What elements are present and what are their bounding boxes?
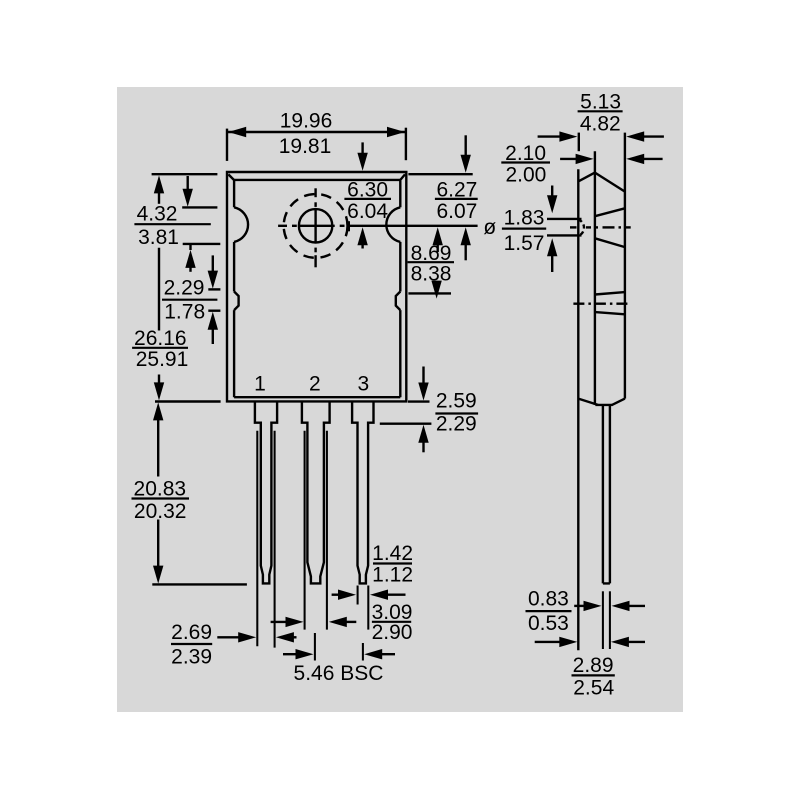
svg-text:19.96: 19.96 xyxy=(280,110,333,133)
svg-text:1.83: 1.83 xyxy=(504,207,545,230)
dimension 2.69/2.39 xyxy=(171,621,297,669)
svg-text:4.32: 4.32 xyxy=(137,203,178,226)
side view middle line xyxy=(594,151,596,405)
svg-text:19.81: 19.81 xyxy=(279,135,332,158)
side view lead xyxy=(603,405,610,584)
side view top peak xyxy=(578,173,625,192)
package bottom extension line left xyxy=(155,400,221,402)
svg-text:2: 2 xyxy=(309,373,321,396)
svg-text:0.53: 0.53 xyxy=(528,612,569,635)
svg-text:3.81: 3.81 xyxy=(138,226,179,249)
svg-text:25.91: 25.91 xyxy=(136,348,189,371)
svg-text:1.78: 1.78 xyxy=(164,300,205,323)
gray drawing panel xyxy=(117,87,683,712)
svg-text:1.12: 1.12 xyxy=(372,563,413,586)
dimension 5.13/4.82 xyxy=(538,91,664,152)
package inner outline right side xyxy=(399,181,401,398)
package inner outline bottom xyxy=(234,396,400,398)
svg-text:2.00: 2.00 xyxy=(505,164,546,187)
svg-text:0.83: 0.83 xyxy=(528,588,569,611)
mounting hole boss dashed circle xyxy=(284,194,348,258)
leg 1 max-width lines / extension lines xyxy=(257,431,274,648)
package front view outer outline xyxy=(227,172,406,401)
extension line lower notch bottom xyxy=(208,310,220,312)
leg 3 center extension line xyxy=(362,643,364,661)
dimension 26.16/25.91 xyxy=(132,175,188,400)
extension line lower notch top xyxy=(208,288,220,290)
leg 2 max-width lines / extension lines xyxy=(305,431,327,630)
svg-text:26.16: 26.16 xyxy=(134,327,187,350)
svg-text:5.13: 5.13 xyxy=(580,91,621,114)
svg-text:2.54: 2.54 xyxy=(573,677,614,700)
left side notch lower (chamfered) xyxy=(234,292,239,311)
dimension 2.59/2.29 lead shoulder xyxy=(380,367,478,453)
svg-text:20.83: 20.83 xyxy=(134,477,187,500)
svg-text:1.42: 1.42 xyxy=(372,542,413,565)
svg-text:1: 1 xyxy=(254,373,266,396)
side view lead extension lines xyxy=(603,591,610,649)
dimension 4.32/3.81 arrow xyxy=(134,176,210,249)
pin number 3 xyxy=(357,373,369,396)
dimension 6.27/6.07 xyxy=(435,135,478,260)
side view hole extension lines xyxy=(547,219,582,236)
side view left edge line with lower extension xyxy=(577,169,579,650)
leg tips extension line xyxy=(152,583,247,585)
hole horizontal centerline xyxy=(278,225,478,227)
svg-text:8.38: 8.38 xyxy=(411,263,452,286)
dimension 0.83/0.53 lead thickness xyxy=(526,588,646,636)
hole vertical centerline xyxy=(314,188,316,267)
svg-text:4.82: 4.82 xyxy=(580,112,621,135)
extension line upper arc top xyxy=(182,206,217,208)
top edge extension line left xyxy=(152,173,218,175)
leg 3 outline xyxy=(352,401,373,583)
svg-text:2.39: 2.39 xyxy=(171,645,212,668)
left side notch arc upper xyxy=(234,207,248,242)
mounting hole solid circle xyxy=(299,209,332,242)
leg 3 tip extension lines xyxy=(358,586,369,630)
dimension 2.29/1.78 arrows xyxy=(162,255,218,344)
dimension 20.83/20.32 xyxy=(132,402,190,583)
side view upper chamfer diagonals xyxy=(595,208,625,247)
package inner outline left side xyxy=(233,181,235,398)
top edge extension line right xyxy=(408,173,472,175)
extension line upper arc bottom xyxy=(183,243,221,245)
svg-text:6.07: 6.07 xyxy=(436,200,477,223)
svg-text:2.59: 2.59 xyxy=(436,389,477,412)
right side notch arc upper xyxy=(386,207,400,242)
right side notch lower (chamfered) xyxy=(396,292,401,311)
package front view inner outline top with corner chamfers xyxy=(228,174,405,181)
arc bottom arrow xyxy=(185,245,195,272)
dimension 2.89/2.54 xyxy=(535,637,645,700)
side view notch diagonals xyxy=(595,292,625,314)
svg-text:ø: ø xyxy=(483,216,496,239)
svg-text:2.90: 2.90 xyxy=(372,621,413,644)
side view hole centerline xyxy=(570,226,631,228)
pin number 2 xyxy=(309,373,321,396)
svg-text:6.04: 6.04 xyxy=(347,200,388,223)
side view notch centerline xyxy=(573,303,628,305)
svg-text:3: 3 xyxy=(357,373,369,396)
side view bottom chamfers and bottom edge xyxy=(578,399,625,405)
dimension 19.96/19.81 overall width xyxy=(227,110,406,161)
svg-text:5.46 BSC: 5.46 BSC xyxy=(294,662,384,685)
svg-text:1.57: 1.57 xyxy=(504,232,545,255)
dimension 1.42/1.12 lead tip width xyxy=(332,542,413,600)
side view hole hidden arc xyxy=(578,220,584,236)
hole center tick xyxy=(348,221,350,231)
side view right edge line with upper extension xyxy=(624,133,626,399)
leg 2 outline xyxy=(302,401,330,583)
dimension 2.10/2.00 xyxy=(501,142,662,187)
svg-text:2.29: 2.29 xyxy=(164,276,205,299)
svg-text:2.69: 2.69 xyxy=(171,621,212,644)
leg 1 outline xyxy=(255,401,277,583)
leg 2 center extension line xyxy=(314,633,316,661)
svg-text:20.32: 20.32 xyxy=(134,500,187,523)
svg-text:2.89: 2.89 xyxy=(573,654,614,677)
dimension 8.69/8.38 xyxy=(408,227,454,298)
dimension 3.09/2.90 xyxy=(271,601,413,644)
dimension 6.30/6.04 hole to top xyxy=(344,142,391,248)
svg-text:2.29: 2.29 xyxy=(436,412,477,435)
pin number 1 xyxy=(254,373,266,396)
dimension 5.46 BSC lead pitch xyxy=(283,649,395,685)
dimension diameter 1.83/1.57 xyxy=(483,186,557,273)
